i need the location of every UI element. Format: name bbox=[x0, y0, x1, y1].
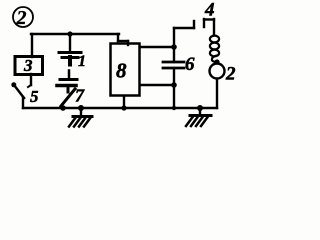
svg-text:6: 6 bbox=[185, 54, 195, 75]
svg-text:7: 7 bbox=[75, 86, 85, 106]
svg-text:8: 8 bbox=[116, 59, 127, 83]
svg-text:2: 2 bbox=[225, 64, 236, 85]
svg-text:4: 4 bbox=[204, 0, 215, 21]
svg-text:5: 5 bbox=[30, 87, 39, 106]
svg-text:3: 3 bbox=[23, 56, 33, 75]
svg-text:2: 2 bbox=[16, 7, 27, 29]
svg-text:1: 1 bbox=[78, 53, 86, 70]
